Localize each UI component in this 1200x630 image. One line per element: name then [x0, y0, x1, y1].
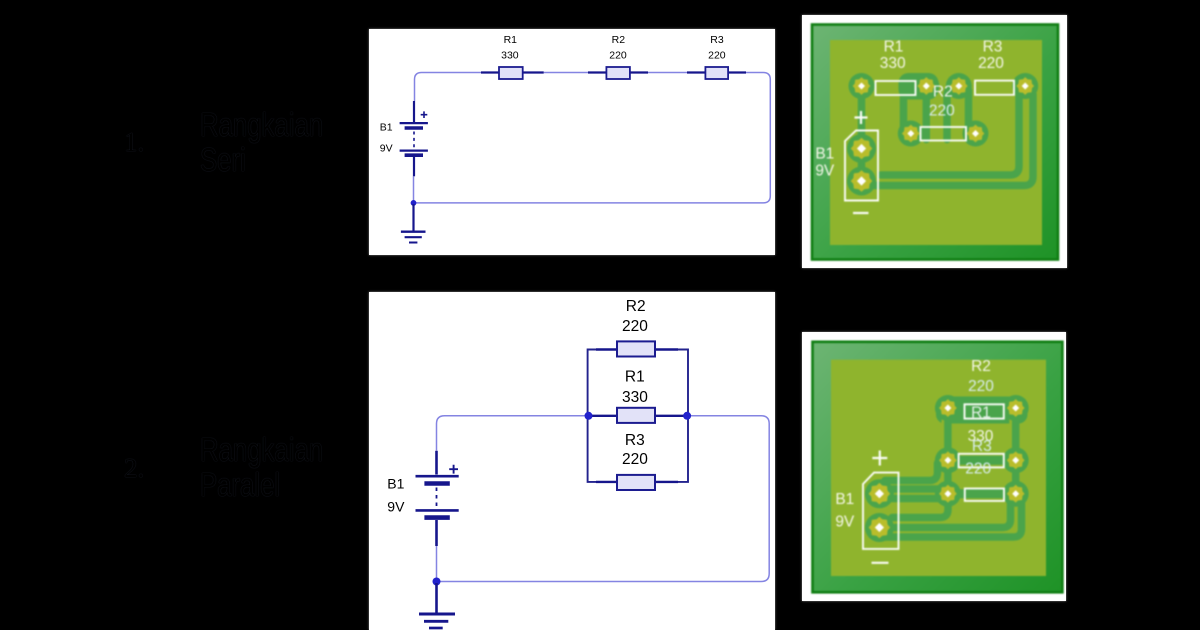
- pad R2.1: [935, 395, 961, 421]
- svg-text:330: 330: [880, 55, 906, 72]
- pad R2.1: [898, 121, 924, 147]
- PCB board 1 inner copper area: [830, 40, 1042, 245]
- pad R3.2: [1012, 73, 1038, 99]
- resistor R3 value labels: [708, 34, 726, 62]
- silkscreen R1 outline: [959, 454, 1004, 468]
- trace battery+ upper: [882, 485, 941, 493]
- svg-text:220: 220: [978, 55, 1004, 72]
- svg-text:R1: R1: [504, 34, 518, 46]
- svg-text:R1: R1: [971, 405, 991, 422]
- node junction dot bottom: [433, 578, 441, 586]
- trace underpass to R3.1: [892, 499, 948, 518]
- svg-text:9V: 9V: [815, 162, 835, 179]
- silkscreen R2 outline: [965, 404, 1004, 418]
- battery B1 labels: [387, 476, 405, 515]
- battery B1: [400, 101, 428, 176]
- trace battery- outer: [882, 500, 1022, 537]
- silkscreen battery - mark: [872, 562, 889, 564]
- node junction dot right: [683, 412, 691, 420]
- resistor R2 value labels: [609, 34, 627, 62]
- trace under R2 left: [923, 90, 931, 140]
- pad B1-: [847, 167, 876, 196]
- trace right pads column: [1012, 408, 1020, 494]
- PCB board 2 inner copper area: [831, 360, 1046, 576]
- trace outer bottom L from battery- to R3.2: [862, 94, 1033, 186]
- row 2 caption: [200, 432, 323, 502]
- svg-text:220: 220: [622, 318, 648, 335]
- silkscreen battery - mark: [853, 212, 869, 214]
- resistor R1 leads: [481, 71, 544, 73]
- row number 2.: [124, 453, 144, 484]
- resistor R3 body: [617, 475, 655, 490]
- svg-text:220: 220: [968, 378, 994, 395]
- silkscreen battery B1 outline: [845, 131, 878, 201]
- pad R1.1: [935, 447, 961, 473]
- trace battery+ lower: [882, 495, 951, 503]
- pad R3.1: [935, 481, 961, 507]
- pad R3.1: [946, 73, 972, 99]
- patch light slots: [942, 397, 945, 424]
- PCB board 2: [813, 342, 1063, 593]
- battery B1: [416, 451, 459, 546]
- wire middle net (light): [437, 416, 770, 582]
- svg-text:R1: R1: [884, 38, 904, 55]
- svg-text:220: 220: [929, 103, 955, 120]
- ground symbol: [401, 204, 426, 243]
- pad R3.2: [1003, 481, 1029, 507]
- resistor R2 leads: [596, 348, 678, 350]
- trace bottom row horizontal: [944, 489, 1020, 498]
- PCB panel 1: [802, 15, 1067, 268]
- battery B1 labels: [380, 122, 393, 155]
- trace battery- inner: [879, 497, 1010, 528]
- resistor R3 body: [705, 67, 728, 79]
- trace under R2 right: [947, 87, 958, 140]
- trace battery+ to R1.1: [862, 86, 1034, 186]
- svg-text:R1: R1: [625, 369, 645, 386]
- trace inner bottom L: [881, 94, 1019, 175]
- svg-text:R2: R2: [612, 34, 626, 46]
- schematic panel 1: [369, 29, 775, 255]
- row number 1.: [124, 127, 144, 158]
- copper patch around R1.2 pad: [899, 73, 939, 100]
- svg-text:220: 220: [622, 451, 648, 468]
- wire parallel box (dark): [588, 350, 688, 482]
- silkscreen R3 outline: [975, 81, 1014, 95]
- svg-text:R3: R3: [710, 34, 724, 46]
- svg-text:R3: R3: [972, 438, 992, 455]
- svg-text:220: 220: [708, 50, 726, 62]
- PCB panel 2: [802, 332, 1066, 601]
- silkscreen R1 outline: [876, 81, 916, 95]
- copper patch around R2 row: [936, 397, 1028, 424]
- resistor R1 value labels: [501, 34, 519, 62]
- svg-text:R2: R2: [626, 298, 646, 315]
- trace left pads column: [944, 408, 952, 494]
- svg-text:R2: R2: [971, 358, 991, 375]
- svg-text:9V: 9V: [380, 142, 393, 154]
- resistor R2 leads: [588, 71, 648, 73]
- silkscreen R2 outline: [921, 127, 967, 141]
- svg-text:330: 330: [501, 50, 519, 62]
- PCB1 label R1: [815, 38, 1004, 179]
- svg-text:220: 220: [609, 50, 627, 62]
- svg-text:R3: R3: [983, 38, 1003, 55]
- pad B1+: [865, 479, 894, 508]
- pad R1.2: [1003, 447, 1029, 473]
- pad R1.1: [849, 73, 875, 99]
- trace middle row horizontal: [944, 456, 1020, 465]
- resistor R2 body: [606, 67, 630, 79]
- svg-text:220: 220: [965, 461, 991, 478]
- silkscreen R3 outline: [965, 489, 1004, 501]
- svg-text:R3: R3: [625, 432, 645, 449]
- resistor R1 body: [617, 408, 655, 423]
- svg-text:B1: B1: [380, 122, 393, 134]
- ground symbol: [419, 583, 455, 628]
- resistor R3 leads: [687, 71, 746, 73]
- node junction dot left: [585, 412, 593, 420]
- pad B1-: [865, 513, 894, 542]
- schematic panel 2: [369, 292, 775, 630]
- resistor R1 body: [499, 67, 523, 79]
- node junction dot: [411, 200, 417, 206]
- svg-text:9V: 9V: [387, 499, 405, 515]
- trace R3.1 to R2.2: [969, 90, 974, 129]
- resistor R2 body: [617, 341, 655, 356]
- resistor R3 leads: [596, 481, 678, 483]
- silkscreen battery + mark: [872, 451, 887, 466]
- svg-text:330: 330: [622, 389, 648, 406]
- pad R2.2: [963, 121, 989, 147]
- trace R1.2 to R2.1: [904, 86, 924, 130]
- svg-text:B1: B1: [815, 146, 834, 163]
- silkscreen battery + mark: [855, 111, 868, 124]
- svg-text:9V: 9V: [835, 513, 855, 530]
- svg-text:R2: R2: [933, 84, 953, 101]
- wire battery bottom lead (light): [436, 546, 438, 582]
- resistor R2 labels: [622, 298, 648, 335]
- PCB board 1: [812, 25, 1058, 260]
- pad B1+: [847, 134, 876, 163]
- silkscreen battery B1 outline: [863, 473, 899, 549]
- pad R1.2: [913, 73, 939, 99]
- row 1 caption: [200, 107, 323, 177]
- svg-text:B1: B1: [835, 491, 854, 508]
- pad R2.2: [1003, 395, 1029, 421]
- svg-text:B1: B1: [387, 476, 404, 492]
- wire loop net 1 (light): [414, 73, 771, 203]
- resistor R1 leads: [589, 415, 688, 417]
- trace battery+ to R1.1: [885, 463, 938, 481]
- resistor R3 labels: [622, 432, 648, 468]
- resistor R1 labels: [622, 369, 648, 407]
